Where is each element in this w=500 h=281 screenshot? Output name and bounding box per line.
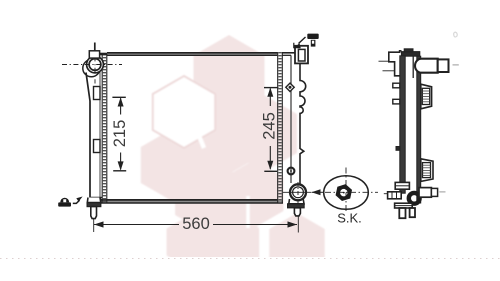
inner line top: [412, 56, 414, 78]
detail crosshair vertical: [345, 168, 347, 214]
outlet pipe circle: [290, 184, 306, 200]
svg-text:215: 215: [111, 120, 129, 148]
bottom stem left: [399, 208, 405, 218]
outlet crosshair vertical: [297, 182, 299, 204]
bottom-right pin: [294, 208, 300, 216]
rail clamp: [395, 182, 409, 189]
left tab 1: [393, 83, 400, 88]
elbow dark ring: [409, 193, 420, 204]
tank clip 1: [94, 87, 101, 100]
hexagon P6: [225, 160, 284, 228]
svg-text:560: 560: [182, 215, 210, 233]
left tab 3: [396, 147, 400, 151]
svg-text:245: 245: [261, 112, 279, 140]
pipe tick: [453, 64, 459, 66]
left tab 2: [393, 99, 400, 104]
hexagon P2: [141, 129, 203, 201]
bottom-right mount bracket: [289, 199, 304, 204]
flange crosshair vertical: [94, 45, 96, 84]
hexagon P3: [189, 102, 255, 178]
top-left bracket: [89, 51, 99, 58]
hexagon P8: [167, 215, 214, 269]
detail crosshair horizontal: [325, 191, 378, 193]
top-right slotted bracket: [295, 46, 308, 64]
grommet assembly arrow: [73, 200, 80, 203]
connector block 2: [421, 159, 433, 182]
bottom-left pin: [91, 207, 97, 219]
hexagon W1 white cell: [153, 76, 215, 148]
detail leader arrow: [312, 191, 324, 193]
right block tick: [439, 191, 445, 193]
bottom-right collar: [288, 204, 305, 208]
left rail: [400, 56, 405, 193]
faint smudge top right: [454, 32, 458, 37]
tank bolt circle: [288, 168, 295, 175]
hexagon P4: [231, 95, 297, 172]
dimension 215: [112, 97, 126, 171]
bottom collar: [395, 203, 413, 208]
core left serrated edge: [101, 54, 103, 203]
bottom-left mount bracket: [87, 198, 101, 203]
right extension line: [297, 216, 299, 233]
hex plug: [338, 187, 349, 198]
bottom stem right: [410, 208, 415, 217]
svg-text:S.K.: S.K.: [337, 211, 362, 226]
hexagon P1: [194, 35, 265, 117]
right lower block: [419, 188, 431, 198]
top-left pin tick: [94, 43, 96, 51]
core top edge double line: [107, 53, 277, 55]
drain plug diamond: [286, 83, 294, 91]
dimension 560: [94, 224, 297, 226]
hexagon P5: [175, 158, 241, 234]
right tank outline: [290, 55, 292, 183]
right rail: [417, 56, 421, 203]
left tank outline: [86, 73, 90, 198]
hexagon P9: [269, 213, 324, 277]
top-right assembly arrow: [294, 37, 306, 48]
connector block 1: [421, 84, 432, 109]
right tank outer contour with bumps: [300, 64, 306, 186]
bracket tick 2: [383, 70, 395, 72]
dimension 245: [264, 88, 278, 172]
bottom-left grommet symbol: [58, 198, 71, 207]
hexagon P7: [197, 210, 259, 281]
core bottom edge double line: [101, 200, 283, 202]
bottom-left collar: [87, 203, 101, 207]
flange crosshair horizontal: [62, 64, 122, 66]
core right serrated edge: [277, 52, 279, 203]
top-left inlet flange circle: [83, 60, 100, 77]
detail ellipse: [324, 176, 369, 210]
side left bracket: [389, 51, 402, 76]
top pipe: [415, 59, 438, 73]
tank top connector: [99, 53, 107, 56]
tank clip 2: [94, 140, 101, 153]
outlet crosshair horizontal: [283, 191, 312, 193]
top-right bolt symbol: [307, 34, 318, 47]
column top cap: [401, 52, 419, 57]
white gap between cells: [197, 106, 204, 148]
left extension line: [93, 219, 95, 232]
left block tick: [384, 193, 388, 195]
bracket tick 1: [379, 60, 389, 62]
watermark honeycomb: [141, 35, 325, 281]
left lower block: [388, 192, 402, 199]
faint dotted separator line: [0, 258, 500, 260]
